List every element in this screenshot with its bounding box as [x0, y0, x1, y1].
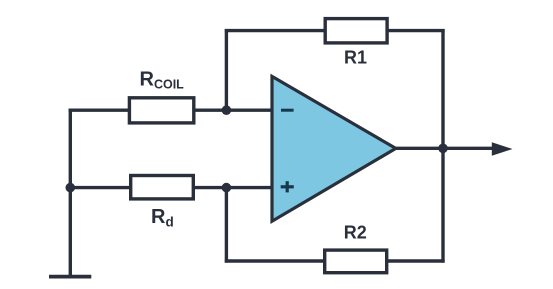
- wire right vertical top: [441, 29, 444, 148]
- wire Rd to non-inverting input: [194, 186, 272, 189]
- wire R1 to right vertical: [388, 29, 445, 32]
- op-amp U1: [272, 76, 396, 221]
- node junction left: [66, 183, 76, 193]
- svg-text:R1: R1: [344, 48, 367, 68]
- node junction output: [438, 144, 448, 154]
- wire left vertical: [69, 109, 72, 277]
- wire right vertical bottom: [441, 148, 444, 262]
- svg-text:R2: R2: [344, 223, 367, 243]
- resistor Rd: [131, 176, 194, 199]
- wire bottom horizontal to R2: [225, 259, 325, 262]
- node junction non-inverting: [222, 183, 232, 193]
- op-amp inverting pin minus: [281, 109, 294, 112]
- wire left input horizontal to RCOIL: [69, 108, 129, 111]
- op-amp non-inverting pin plus: [281, 181, 294, 192]
- resistor RCOIL: [129, 98, 193, 123]
- wire node to Rd: [70, 186, 130, 189]
- svg-text:RCOIL: RCOIL: [140, 69, 185, 92]
- node junction inverting: [222, 105, 232, 115]
- wire R2 to right vertical: [388, 259, 445, 262]
- output arrow: [492, 142, 513, 156]
- wire bottom vertical from non-inverting node: [225, 188, 228, 263]
- resistor R2: [325, 250, 387, 273]
- svg-text:Rd: Rd: [151, 206, 174, 230]
- wire feedback vertical from inverting node: [225, 29, 228, 110]
- resistor R1: [325, 19, 387, 43]
- wire feedback top left horizontal to R1: [225, 29, 325, 32]
- ground: [49, 275, 91, 279]
- wire output: [396, 147, 496, 150]
- wire RCOIL to inverting input: [194, 108, 272, 111]
